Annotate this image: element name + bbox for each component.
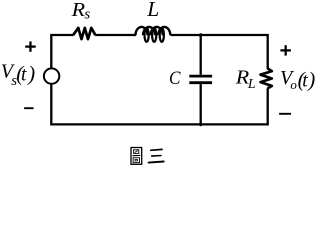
svg-text:t: t (302, 71, 308, 92)
node junction top (199, 33, 203, 37)
svg-text:t: t (21, 65, 27, 86)
label RL (235, 65, 256, 92)
capacitor C bottom plate (189, 81, 212, 84)
svg-text:R: R (71, 0, 86, 21)
plus sign source side (25, 41, 36, 51)
wire top-left corner and left rail upper segment (51, 35, 73, 68)
capacitor C top plate (189, 75, 212, 78)
caption glyph 三 (149, 149, 164, 162)
svg-text:): ) (27, 61, 35, 85)
label Rs (71, 0, 91, 23)
plus sign output side (280, 45, 291, 55)
wire between Rs and L (95, 34, 136, 36)
wire top rail right segment + right rail upper (171, 35, 268, 69)
svg-text:L: L (247, 77, 256, 92)
inductor L coil (136, 27, 171, 42)
capacitor C lower lead wire (200, 84, 202, 124)
label Vo(t) (280, 67, 315, 92)
voltage source Vs circle (44, 68, 59, 83)
capacitor C upper lead wire (200, 34, 202, 75)
svg-text:o: o (290, 77, 297, 92)
label Vs(t) (1, 61, 35, 89)
minus sign output side (279, 113, 291, 115)
resistor RL zigzag (261, 68, 272, 88)
svg-text:C: C (169, 67, 181, 88)
node junction bottom (199, 123, 203, 127)
resistor Rs zigzag (73, 28, 95, 39)
minus sign source side (24, 107, 33, 109)
svg-text:L: L (146, 0, 159, 21)
wire left rail lower + bottom rail + right rail lower (51, 85, 267, 125)
svg-text:): ) (307, 68, 315, 92)
caption glyph 圖 (131, 148, 142, 165)
svg-text:s: s (84, 7, 90, 23)
